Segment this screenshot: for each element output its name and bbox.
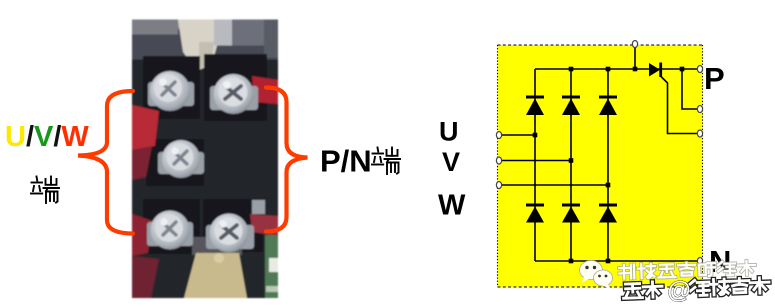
svg-text:P: P (704, 61, 725, 96)
svg-text:V: V (442, 147, 460, 177)
svg-text:P/N: P/N (320, 144, 372, 179)
svg-text:U: U (439, 117, 459, 147)
svg-text:U/V/W: U/V/W (5, 121, 89, 153)
svg-text:W: W (438, 190, 466, 222)
svg-text:@: @ (667, 276, 691, 304)
